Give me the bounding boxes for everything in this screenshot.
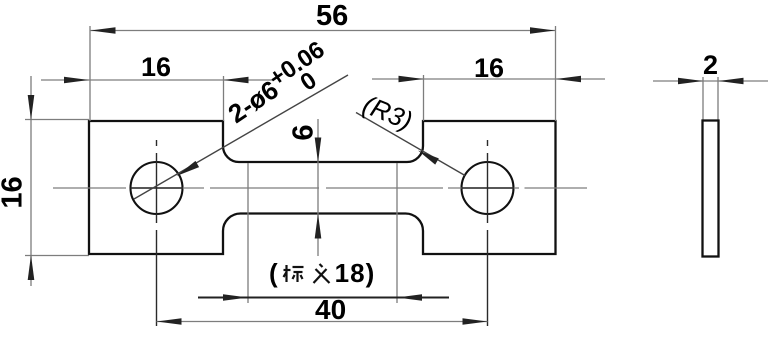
leader R3 xyxy=(356,113,465,176)
16V bottom (outside) xyxy=(28,255,35,280)
16R left (outside) xyxy=(399,76,424,83)
ext 2 right xyxy=(717,77,719,121)
dim 16 right line xyxy=(372,78,605,80)
hole crosshairs dark xyxy=(131,140,515,326)
leader 2-phi6 xyxy=(134,75,348,199)
dim 40 line xyxy=(157,321,488,323)
hole right xyxy=(462,162,514,214)
horizontal centerline xyxy=(53,187,587,189)
dim text 6 (bar height, rotated) xyxy=(288,124,321,140)
leader arrow R3 corner xyxy=(418,151,439,165)
2 right (outside) xyxy=(719,78,744,85)
ext 16 right notch xyxy=(423,75,425,121)
ext 56 left / 16 shared xyxy=(89,26,91,121)
side view xyxy=(703,121,719,257)
ext 16 left notch xyxy=(223,76,225,121)
plate outline (front view) xyxy=(89,121,556,254)
leader arrow hole xyxy=(177,161,200,176)
dim text 40 (hole spacing) xyxy=(315,294,346,326)
2 left (outside) xyxy=(678,78,703,85)
40 left (inside) xyxy=(157,318,182,325)
16L right (outside) xyxy=(224,77,249,84)
dim text 16 (height, rotated) xyxy=(0,176,30,208)
6 bottom (outside) xyxy=(315,214,322,239)
ext 18 right xyxy=(396,163,398,303)
ext 16 vert top xyxy=(25,119,89,121)
ext 56 right xyxy=(555,26,557,121)
16R right (outside) xyxy=(556,76,581,83)
dim 16 left line xyxy=(41,79,274,81)
dim text 16 (right segment) xyxy=(474,53,504,84)
dim 56 line xyxy=(91,30,556,32)
dim 18 line (dark) xyxy=(198,297,449,299)
dim 16 vertical line xyxy=(30,76,32,286)
16V top (outside) xyxy=(28,95,35,120)
16L left (outside) xyxy=(64,77,89,84)
6 top (outside) xyxy=(315,138,322,163)
40 right (inside) xyxy=(463,318,488,325)
56 left xyxy=(91,27,116,34)
hole left xyxy=(131,162,183,214)
label (R3) fillet radius xyxy=(358,89,416,137)
dim text 2 (thickness) xyxy=(703,50,718,81)
dim text 16 (left segment) xyxy=(141,52,171,83)
dim 2 line xyxy=(653,80,768,82)
ext 2 left xyxy=(702,77,704,121)
ext 16 vert bottom xyxy=(25,255,89,257)
18 left (outside) xyxy=(223,294,248,301)
ext 18 left xyxy=(247,163,249,303)
18 right (outside) xyxy=(397,294,422,301)
label 2-diam6 +0.06/0 hole callout xyxy=(221,39,330,124)
dim 6 vertical line xyxy=(317,119,319,256)
dim text 56 (overall width) xyxy=(316,0,348,33)
56 right xyxy=(530,27,555,34)
label (biao yi 18) notch flat width xyxy=(269,258,375,288)
